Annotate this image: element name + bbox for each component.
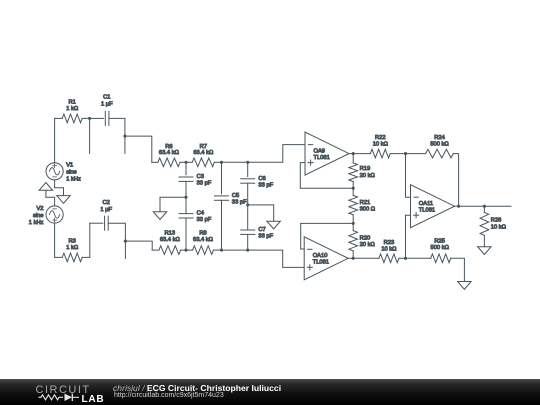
- wire C7 top lead: [247, 205, 249, 230]
- label R3 value: [66, 245, 79, 251]
- wire OA11 minus lead: [406, 154, 411, 198]
- wire C6 bottom to node: [247, 183, 249, 205]
- wire bottom rail to C7 node: [222, 249, 248, 251]
- svg-text:R3: R3: [69, 238, 76, 244]
- label R19 value: [360, 173, 376, 179]
- wire R23 to node: [399, 257, 406, 259]
- capacitor C4: [179, 214, 193, 218]
- svg-text:33 pF: 33 pF: [258, 234, 273, 240]
- junction OA9 output: [352, 152, 355, 155]
- junction R21-R20: [352, 222, 355, 225]
- circuitlab logo: [0, 379, 190, 405]
- capacitor C7: [241, 230, 255, 234]
- wire OA9 plus feedback: [300, 163, 353, 189]
- wire node to right ground: [248, 205, 274, 221]
- wire stub below R1-C1 node: [89, 118, 91, 153]
- wire R19 bottom lead: [352, 182, 354, 189]
- capacitor C1: [105, 111, 109, 125]
- svg-text:C6: C6: [258, 176, 265, 182]
- ground above V2 (flipped): [39, 183, 53, 198]
- label R26 value: [491, 224, 507, 230]
- svg-text:1 kΩ: 1 kΩ: [66, 245, 79, 251]
- svg-text:OA11: OA11: [419, 201, 433, 207]
- svg-text:C7: C7: [258, 227, 265, 233]
- wire stub below C1 node: [124, 136, 126, 153]
- junction R19-R21: [352, 187, 355, 190]
- wire R21 bottom lead: [352, 215, 354, 224]
- svg-text:C1: C1: [103, 95, 110, 101]
- label V2 name: [36, 206, 43, 212]
- svg-text:C4: C4: [197, 211, 205, 217]
- label R8 value: [193, 237, 214, 243]
- op-amp OA9: [305, 132, 349, 175]
- label C1 name: [103, 95, 110, 101]
- label C7 value: [258, 234, 273, 240]
- label OA11 part: [419, 208, 435, 214]
- svg-text:R24: R24: [434, 135, 445, 141]
- label R23 value: [381, 246, 397, 252]
- wire OA10 out to R23: [353, 257, 379, 259]
- svg-text:C2: C2: [103, 200, 110, 206]
- svg-text:1 µF: 1 µF: [101, 102, 113, 108]
- wire node to left ground: [160, 197, 186, 212]
- label R7 name: [200, 144, 207, 150]
- wire C5 top lead: [221, 162, 223, 193]
- svg-text:R21: R21: [360, 200, 371, 206]
- svg-text:sine: sine: [66, 169, 77, 175]
- svg-text:OA10: OA10: [313, 253, 328, 259]
- wire C2 node to bottom rail: [125, 241, 152, 250]
- wire top rail to OA9 minus: [248, 145, 305, 163]
- label C5 value: [232, 199, 247, 205]
- svg-text:63.4 kΩ: 63.4 kΩ: [193, 237, 214, 243]
- label R24 value: [430, 142, 449, 148]
- svg-text:TL081: TL081: [419, 208, 435, 214]
- label V2 type: [33, 213, 44, 219]
- junction R1-C1: [88, 117, 91, 120]
- wire OA9 output: [349, 153, 353, 155]
- wire R8 to C5 node: [213, 249, 221, 251]
- wire C7 bottom lead: [247, 234, 249, 250]
- footer url line: [114, 392, 224, 399]
- junction R22-R24-OA11minus: [404, 152, 407, 155]
- junction C1 corner node: [123, 135, 126, 138]
- label C1 value: [101, 102, 113, 108]
- wire R20 top lead: [352, 223, 354, 230]
- label R22 value: [373, 142, 389, 148]
- wire C6 top lead: [247, 162, 249, 176]
- svg-text:1 kΩ: 1 kΩ: [66, 106, 79, 112]
- svg-text:V2: V2: [36, 206, 43, 212]
- wire bottom rail left lead: [152, 249, 159, 251]
- label OA11 name: [419, 201, 433, 207]
- label V1 name: [66, 162, 73, 168]
- wire R20 bottom lead: [352, 251, 354, 258]
- svg-text:R22: R22: [375, 135, 386, 141]
- wire C5 bottom lead: [221, 200, 223, 250]
- wire R13 to node: [181, 249, 193, 251]
- label R25 name: [434, 239, 445, 245]
- label V2 freq: [29, 220, 44, 226]
- logo resistor squiggle: [39, 395, 64, 400]
- svg-text:R6: R6: [165, 144, 172, 150]
- footer bar: [0, 379, 540, 405]
- capacitor C5: [215, 196, 229, 200]
- wire C4 top lead: [185, 197, 187, 213]
- svg-text:LAB: LAB: [82, 394, 105, 405]
- svg-text:63.4 kΩ: 63.4 kΩ: [160, 237, 181, 243]
- svg-text:R19: R19: [360, 166, 371, 172]
- resistor R23: [379, 254, 399, 263]
- voltage source V2 sine: [46, 206, 63, 223]
- label C4 name: [197, 211, 205, 217]
- wire R26 top lead: [483, 206, 485, 212]
- svg-text:V1: V1: [66, 162, 73, 168]
- wire R25 to ground: [451, 258, 465, 281]
- wire V1 top to R1: [54, 118, 56, 162]
- svg-text:33 pF: 33 pF: [258, 182, 273, 188]
- junction R7-C5: [220, 161, 223, 164]
- wire OA11 output: [454, 205, 459, 207]
- resistor R13: [159, 246, 181, 255]
- junction OA11 output: [457, 205, 460, 208]
- wire R7 to C5 node: [214, 161, 221, 163]
- ground below R25: [458, 282, 472, 290]
- resistor R7: [192, 158, 214, 167]
- label C2 name: [103, 200, 110, 206]
- wire top rail to C6 node: [222, 161, 248, 163]
- svg-text:500 kΩ: 500 kΩ: [430, 142, 449, 148]
- wire R1 to node: [82, 117, 89, 119]
- label R8 name: [199, 230, 206, 236]
- svg-text:1 kHz: 1 kHz: [66, 176, 81, 182]
- wire bottom rail to OA10 plus: [248, 250, 305, 267]
- resistor R3: [62, 253, 82, 262]
- label R20 value: [360, 242, 376, 248]
- wire R19 top lead: [352, 154, 354, 163]
- wire R25 left lead: [406, 257, 431, 259]
- wire OA10 minus feedback: [301, 223, 354, 249]
- wire output line: [459, 205, 511, 207]
- label R13 value: [160, 237, 181, 243]
- label OA10 part: [313, 260, 329, 266]
- label R22 name: [375, 135, 386, 141]
- svg-text:33 pF: 33 pF: [197, 181, 212, 187]
- resistor R25: [431, 254, 451, 263]
- label R20 name: [360, 235, 371, 241]
- label R6 value: [159, 150, 180, 156]
- ground below R26: [478, 247, 492, 255]
- wire R26 to ground: [483, 235, 485, 246]
- label R1 name: [69, 99, 76, 105]
- wire stub below C2 node: [124, 241, 126, 258]
- svg-text:1 kHz: 1 kHz: [29, 220, 44, 226]
- svg-text:300 Ω: 300 Ω: [360, 207, 376, 213]
- svg-text:20 kΩ: 20 kΩ: [360, 173, 376, 179]
- junction C3-C4-ground: [184, 196, 187, 199]
- svg-text:R25: R25: [434, 239, 445, 245]
- wire OA11 plus lead: [406, 215, 411, 258]
- svg-text:10 kΩ: 10 kΩ: [381, 246, 397, 252]
- wire C3 bottom to node: [185, 181, 187, 197]
- wire V2 bottom to R3: [54, 223, 56, 257]
- wire R22 to node: [390, 153, 405, 155]
- wire C4 bottom lead: [185, 218, 187, 250]
- footer credit line: [113, 383, 281, 393]
- svg-text:20 kΩ: 20 kΩ: [360, 242, 376, 248]
- svg-text:33 pF: 33 pF: [197, 217, 212, 223]
- junction bottom rail-C7: [246, 249, 249, 252]
- capacitor C3: [179, 177, 193, 181]
- wire C3 top lead: [185, 162, 187, 175]
- resistor R21: [349, 195, 358, 214]
- junction R6-R7-C3: [184, 161, 187, 164]
- wire R24 left lead: [406, 153, 426, 155]
- wire C1 node to top rail: [125, 136, 152, 162]
- wire OA10 output: [348, 257, 353, 259]
- svg-text:R23: R23: [384, 240, 395, 246]
- label C4 value: [197, 217, 212, 223]
- label OA9 name: [314, 148, 326, 154]
- label R26 name: [491, 218, 502, 224]
- ground below V1: [57, 196, 70, 204]
- wire corner to C2: [90, 222, 103, 224]
- label C2 value: [100, 207, 112, 213]
- wire C2 to corner node: [108, 223, 125, 241]
- svg-text:1 µF: 1 µF: [100, 207, 112, 213]
- resistor R6: [158, 158, 180, 167]
- svg-text:10 kΩ: 10 kΩ: [491, 224, 507, 230]
- label C6 value: [258, 182, 273, 188]
- resistor R24: [426, 149, 454, 158]
- label R19 name: [360, 166, 371, 172]
- svg-text:R1: R1: [69, 99, 76, 105]
- junction output-R26: [483, 205, 486, 208]
- label C6 name: [258, 176, 265, 182]
- label C3 value: [197, 181, 212, 187]
- op-amp OA10: [304, 237, 348, 280]
- wire R24 to OA11 output: [453, 154, 458, 207]
- wire R3 to corner: [82, 223, 90, 257]
- junction R13-R8-C4: [184, 249, 187, 252]
- label R25 value: [431, 245, 450, 251]
- wire OA9 out to R22: [353, 153, 370, 155]
- junction OA10 output: [352, 257, 355, 260]
- label OA9 part: [314, 155, 330, 161]
- svg-text:500 kΩ: 500 kΩ: [431, 245, 450, 251]
- label C7 name: [258, 227, 265, 233]
- resistor R22: [370, 149, 390, 158]
- junction C2 corner node: [124, 240, 127, 243]
- svg-text:R7: R7: [200, 144, 207, 150]
- svg-text:TL081: TL081: [313, 260, 329, 266]
- junction R8-C5: [220, 249, 223, 252]
- label R24 name: [434, 135, 445, 141]
- voltage source V1 sine: [46, 163, 63, 180]
- svg-text:R26: R26: [491, 218, 502, 224]
- wire C1 to corner: [109, 118, 125, 136]
- svg-text:OA9: OA9: [314, 148, 326, 154]
- resistor R20: [349, 231, 358, 251]
- label R21 name: [360, 200, 371, 206]
- capacitor C2: [105, 216, 109, 230]
- label C5 name: [232, 193, 239, 199]
- label R6 name: [165, 144, 172, 150]
- svg-text:C3: C3: [197, 174, 204, 180]
- label R7 value: [193, 150, 214, 156]
- op-amp OA11: [411, 185, 455, 228]
- wire top rail left lead: [152, 161, 158, 163]
- wire R1 leads: [55, 117, 63, 119]
- junction C6-C7-ground: [246, 203, 249, 206]
- svg-text:R8: R8: [199, 230, 206, 236]
- ground right of C7: [267, 221, 281, 229]
- svg-text:R20: R20: [360, 235, 371, 241]
- label V1 type: [66, 169, 77, 175]
- label V1 freq: [66, 176, 81, 182]
- capacitor C6: [241, 179, 255, 183]
- label R13 name: [165, 230, 176, 236]
- svg-text:C5: C5: [232, 193, 239, 199]
- label OA10 name: [313, 253, 328, 259]
- label R21 value: [360, 207, 376, 213]
- svg-text:63.4 kΩ: 63.4 kΩ: [159, 150, 180, 156]
- resistor R1: [62, 114, 82, 123]
- label R23 name: [384, 240, 395, 246]
- resistor R8: [193, 246, 214, 255]
- label R1 value: [66, 106, 79, 112]
- wire R3 leads: [55, 256, 63, 258]
- logo diode: [65, 394, 73, 401]
- svg-text:R13: R13: [165, 230, 176, 236]
- wire V1 bottom: [55, 180, 64, 196]
- wire node to C1: [90, 117, 104, 119]
- junction top rail-C6: [246, 161, 249, 164]
- ground left of C4: [153, 212, 167, 220]
- wire ground to V2 top: [46, 197, 55, 206]
- wire R6 to node: [180, 161, 192, 163]
- resistor R26: [480, 212, 489, 235]
- label C3 name: [197, 174, 204, 180]
- wire R21 top lead: [352, 188, 354, 195]
- resistor R19: [349, 163, 358, 182]
- svg-text:TL081: TL081: [314, 155, 330, 161]
- svg-text:10 kΩ: 10 kΩ: [373, 142, 389, 148]
- svg-text:33 pF: 33 pF: [232, 199, 247, 205]
- svg-text:sine: sine: [33, 213, 44, 219]
- junction R23-R25-OA11plus: [404, 257, 407, 260]
- label R3 name: [69, 238, 76, 244]
- svg-text:63.4 kΩ: 63.4 kΩ: [193, 150, 214, 156]
